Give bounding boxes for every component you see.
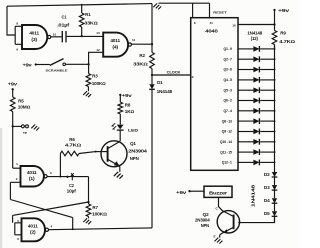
svg-text:R7: R7 — [92, 205, 98, 210]
diode row 5 1N4148 — [253, 87, 259, 93]
svg-text:1N4148: 1N4148 — [157, 89, 173, 94]
svg-text:1KΩ: 1KΩ — [125, 109, 134, 114]
svg-text:1N4148: 1N4148 — [250, 184, 255, 207]
diode row 3 1N4148 — [253, 67, 259, 73]
svg-text:D2: D2 — [264, 172, 271, 177]
svg-text:4.7KΩ: 4.7KΩ — [65, 142, 81, 147]
wire output stub row 7 — [238, 110, 253, 112]
svg-text:12: 12 — [96, 48, 100, 52]
svg-text:11: 11 — [132, 38, 136, 42]
svg-text:+9v: +9v — [23, 62, 33, 67]
svg-text:100KΩ: 100KΩ — [92, 81, 106, 86]
switch S1 SCRAMBLE — [50, 59, 64, 66]
ground TP plate — [31, 125, 39, 131]
wire drop to pin 8 — [192, 3, 194, 18]
svg-text:(3): (3) — [31, 37, 37, 42]
svg-text:33KΩ: 33KΩ — [84, 21, 97, 26]
wire output stub row 10 — [238, 141, 253, 143]
resistor R3 100K — [88, 64, 90, 73]
svg-text:16: 16 — [232, 23, 236, 27]
svg-text:R5: R5 — [18, 99, 24, 104]
svg-text:100KΩ: 100KΩ — [92, 212, 107, 217]
node R1/C1 junction — [81, 35, 83, 37]
svg-text:R3: R3 — [92, 74, 98, 79]
wire gate4 pin12 input down to scramble node — [89, 52, 104, 64]
diode D3 1N4148 — [272, 185, 277, 190]
wire drop to pin 11 reset — [209, 3, 211, 18]
wire output stub row 4 — [238, 79, 253, 81]
capacitor C2 10uf — [66, 176, 68, 178]
svg-text:8: 8 — [194, 21, 196, 25]
svg-text:E: E — [214, 235, 216, 239]
wire latch cross to gate2 inputs — [13, 202, 89, 223]
resistor R2 33K — [150, 52, 155, 68]
svg-text:+9v: +9v — [8, 81, 18, 86]
svg-text:R9: R9 — [280, 31, 286, 36]
svg-text:Q7 - 4: Q7 - 4 — [224, 109, 233, 113]
wire gate1 input 2 from latch feedback — [10, 182, 20, 199]
wire +9v down to R9 — [274, 10, 276, 31]
wire output stub row 5 — [238, 89, 253, 91]
wire switch to gate4 input node — [66, 63, 89, 65]
svg-text:.01µf: .01µf — [57, 23, 70, 28]
scan smudge left edge — [0, 128, 2, 248]
svg-text:C2: C2 — [69, 183, 75, 188]
svg-text:TP: TP — [23, 131, 27, 135]
wire output stub row 3 — [238, 69, 253, 71]
diode row 8 1N4148 — [253, 118, 259, 124]
resistor R7 100K — [88, 202, 90, 204]
svg-text:+9v: +9v — [176, 190, 187, 195]
svg-text:(4): (4) — [112, 44, 118, 49]
diode row 2 1N4148 — [253, 56, 259, 62]
diode row 1 1N4148 — [253, 46, 259, 52]
wire gate2 output to main vertical — [49, 228, 153, 230]
svg-text:Q8 - 13: Q8 - 13 — [222, 119, 232, 123]
wire Q1 base — [96, 151, 108, 153]
svg-text:8: 8 — [16, 21, 18, 25]
transistor Q2 2N3904 — [217, 211, 239, 233]
svg-text:RESET: RESET — [213, 10, 227, 14]
svg-text:2N3904: 2N3904 — [128, 148, 148, 153]
svg-text:Q9 - 12: Q9 - 12 — [222, 130, 232, 134]
node R7 junction — [87, 201, 89, 203]
svg-text:4011: 4011 — [27, 170, 38, 175]
diode row 10 1N4148 — [253, 139, 259, 145]
svg-text:(2): (2) — [30, 230, 36, 235]
svg-text:NPN: NPN — [201, 223, 209, 228]
svg-text:4.7KΩ: 4.7KΩ — [279, 39, 295, 44]
diode D1 1N4148 — [149, 84, 154, 89]
diode D5 1N4148 — [272, 211, 277, 216]
diode row 12 1N4148 — [253, 160, 259, 166]
svg-text:11: 11 — [210, 21, 214, 25]
svg-text:D5: D5 — [264, 211, 271, 216]
wire gate4 output to main node — [132, 43, 153, 45]
wire output stub row 8 — [238, 120, 253, 122]
svg-text:6: 6 — [17, 237, 19, 241]
wire diode rail — [274, 45, 276, 173]
svg-text:2N3904: 2N3904 — [195, 218, 210, 223]
node gate2 input bracket — [15, 223, 22, 235]
svg-text:Q12 - 1: Q12 - 1 — [222, 161, 232, 165]
wire gate1 output — [47, 176, 88, 178]
wire output stub row 6 — [238, 100, 253, 102]
node +9v top right — [273, 9, 275, 11]
diode row 6 1N4148 — [253, 98, 259, 104]
wire left rail to gate1 input 1 — [13, 167, 21, 169]
diode row 7 1N4148 — [253, 108, 259, 114]
svg-text:Q2 - 7: Q2 - 7 — [224, 57, 233, 61]
svg-text:SCRAMBLE: SCRAMBLE — [46, 69, 68, 73]
node TP touch plates — [12, 125, 14, 127]
svg-text:Q11 - 15: Q11 - 15 — [220, 150, 232, 154]
ground top reset — [153, 3, 161, 9]
svg-text:9: 9 — [16, 48, 18, 52]
svg-text:10µf: 10µf — [67, 188, 77, 193]
svg-text:Buzzer: Buzzer — [209, 190, 228, 195]
svg-text:LED: LED — [128, 128, 139, 132]
svg-text:5: 5 — [17, 219, 19, 223]
node scramble / R3 junction — [87, 63, 89, 65]
svg-text:+9v: +9v — [278, 8, 290, 13]
ground below R3 — [83, 91, 91, 97]
wire latch cross to gate1 input — [10, 200, 72, 230]
wire vdd pin16 to +9v rail — [238, 24, 275, 26]
node gate3 input bracket — [15, 26, 22, 44]
svg-text:Q1: Q1 — [130, 141, 137, 146]
wire feedback top from gate4 output to gate3 input — [7, 4, 152, 7]
svg-text:D4: D4 — [264, 198, 271, 203]
resistor R6 4.7K — [59, 176, 61, 178]
svg-text:3: 3 — [50, 171, 52, 175]
diode row 11 1N4148 — [253, 149, 259, 155]
svg-text:+9v: +9v — [122, 93, 133, 98]
diode D2 1N4148 — [272, 172, 277, 177]
svg-text:(1): (1) — [29, 176, 35, 181]
gate U1b 4011 (2) — [22, 218, 46, 241]
node clock junction — [151, 74, 153, 76]
capacitor C1 .01uf — [62, 31, 66, 42]
svg-text:1: 1 — [16, 162, 18, 166]
diode row 9 1N4148 — [253, 129, 259, 135]
diode row 4 1N4148 — [253, 77, 259, 83]
svg-text:R6: R6 — [69, 137, 75, 142]
node gate4 out junction — [151, 43, 153, 45]
node Q2 base — [238, 222, 240, 224]
IC U2 4040 counter — [191, 18, 238, 171]
svg-text:D3: D3 — [264, 185, 271, 190]
svg-text:4011: 4011 — [28, 223, 39, 228]
wire main vertical feedback/clock line — [151, 4, 153, 53]
gate U1d 4011 (4) — [103, 33, 128, 57]
wire D5 to Q2 base — [239, 216, 274, 222]
wire ground to reset pins — [159, 2, 210, 4]
ground Q2 emitter — [219, 235, 221, 238]
svg-text:Q3 - 6: Q3 - 6 — [224, 68, 233, 72]
gate U1c 4011 (3) — [22, 25, 47, 49]
wire LED to Q1 collector — [119, 130, 121, 141]
ground Q1 emitter — [119, 166, 121, 171]
resistor R1 33K — [81, 4, 83, 13]
svg-text:2: 2 — [16, 177, 18, 181]
svg-text:(12): (12) — [251, 36, 259, 41]
wire C1 to gate4 input pin 13 — [67, 35, 104, 37]
wire output stub row 1 — [238, 48, 253, 50]
wire CLOCK to 4040 pin 10 — [152, 74, 191, 76]
buzzer BZ1 — [204, 186, 232, 197]
svg-text:10: 10 — [53, 32, 57, 36]
svg-text:Q10 - 14: Q10 - 14 — [220, 140, 232, 144]
wire output stub row 11 — [238, 151, 253, 153]
svg-text:13: 13 — [96, 31, 100, 35]
svg-text:4: 4 — [51, 225, 53, 229]
gate U1a 4011 (1) — [21, 166, 44, 187]
LED D6 — [117, 125, 124, 130]
wire left drop to gate3 inputs — [7, 6, 15, 35]
svg-text:C1: C1 — [62, 15, 68, 20]
node +9v Q1 supply — [119, 94, 121, 96]
wire output stub row 9 — [238, 131, 253, 133]
svg-text:R8: R8 — [125, 103, 131, 108]
transistor Q1 2N3904 — [101, 141, 127, 167]
svg-text:4040: 4040 — [205, 29, 219, 34]
ground below R7 — [83, 218, 91, 224]
wire output stub row 12 — [238, 161, 253, 163]
svg-text:Q5 - 3: Q5 - 3 — [224, 88, 233, 92]
svg-text:4011: 4011 — [110, 38, 121, 43]
svg-text:4011: 4011 — [29, 31, 40, 36]
svg-text:Q6 - 2: Q6 - 2 — [224, 99, 233, 103]
wire gate3 out to C1 — [51, 36, 62, 38]
svg-text:R1: R1 — [85, 12, 91, 17]
resistor R8 1K — [119, 95, 121, 102]
diode D4 1N4148 — [272, 198, 277, 203]
svg-text:1N4148: 1N4148 — [247, 30, 263, 35]
svg-text:10MΩ: 10MΩ — [18, 105, 30, 110]
svg-text:D1: D1 — [157, 80, 163, 85]
resistor R9 4.7K — [272, 31, 277, 45]
svg-text:NPN: NPN — [130, 156, 139, 161]
wire buzzer to Q2 collector — [219, 197, 223, 210]
wire output stub row 2 — [238, 58, 253, 60]
svg-text:Q4 - 5: Q4 - 5 — [224, 78, 233, 82]
resistor R5 10M — [12, 89, 14, 97]
svg-text:R2: R2 — [139, 53, 145, 58]
wire +9v to buzzer — [190, 190, 205, 192]
svg-text:CLOCK: CLOCK — [167, 70, 181, 74]
wire +9v to switch — [36, 64, 50, 66]
svg-text:Q2: Q2 — [203, 212, 210, 217]
svg-text:Q1 - 9: Q1 - 9 — [224, 47, 233, 51]
wire gate1 output corner down — [88, 177, 90, 202]
svg-text:33KΩ: 33KΩ — [133, 62, 148, 67]
